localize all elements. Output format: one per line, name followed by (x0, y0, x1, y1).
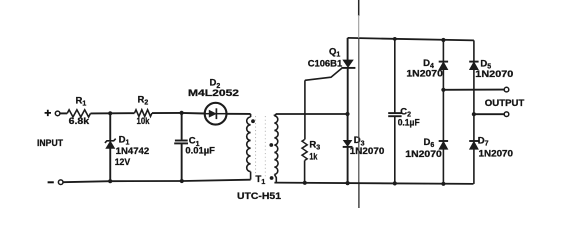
T1 primary phasing dot (251, 119, 255, 123)
svg-text:0.1µF: 0.1µF (398, 118, 421, 128)
diode D6 bar (439, 140, 448, 142)
T1 secondary winding (273, 115, 275, 116)
svg-text:1N2070: 1N2070 (406, 69, 443, 80)
zener D1 wire lower (109, 148, 111, 181)
SCR Q1 cathode wire (347, 68, 349, 114)
svg-text:1N4742: 1N4742 (116, 146, 150, 157)
junction dot D4 top (441, 38, 445, 42)
junction dot D6 bottom (441, 182, 445, 186)
SCR Q1 cathode bar (341, 67, 355, 69)
junction dot C2 top (393, 37, 397, 41)
diode D7 wire lower (473, 149, 475, 184)
svg-text:UTC-H51: UTC-H51 (237, 191, 282, 202)
diode D4 wire upper (442, 40, 444, 62)
top rail right (348, 38, 474, 41)
diode D4 wire lower (442, 70, 444, 184)
SCR Q1 triangle (343, 60, 353, 67)
zener diode D1 wire upper (109, 113, 111, 140)
svg-text:1k: 1k (309, 152, 317, 162)
capacitor C1 wire lower (181, 143, 183, 181)
output terminal upper (504, 87, 509, 92)
svg-text:M4L2052: M4L2052 (188, 88, 239, 99)
bottom rail left (63, 180, 251, 183)
input + terminal (55, 111, 60, 116)
svg-text:12V: 12V (115, 157, 131, 168)
wire secondary top to cathode node (274, 114, 347, 116)
input - terminal (58, 180, 63, 185)
junction dot output upper (441, 88, 445, 92)
output terminal lower (504, 112, 509, 117)
wire R1 to node A (91, 112, 111, 114)
junction dot C1 bottom (180, 179, 184, 183)
R3 wire lower (304, 161, 306, 183)
zener D1 triangle (106, 141, 115, 148)
wire R2 to node B (152, 112, 182, 114)
svg-text:1N2070: 1N2070 (350, 146, 385, 157)
svg-text:0.01µF: 0.01µF (185, 146, 215, 157)
capacitor C2 plates (388, 112, 401, 114)
node A junction dot (108, 111, 112, 115)
diode D5 wire upper (473, 40, 475, 61)
capacitor C2 wire lower (394, 116, 396, 183)
output wire lower (474, 113, 504, 115)
diode D6 triangle (439, 141, 448, 149)
wire node B to D2 (182, 112, 205, 115)
bottom rail right (274, 183, 473, 184)
gate wire down to R3 (304, 80, 306, 139)
diode D5 triangle (470, 62, 479, 70)
zener D1 bar (105, 139, 116, 143)
T1 secondary phasing dot upper (269, 143, 273, 147)
diode D3 bar (343, 146, 353, 148)
capacitor C2 wire upper (394, 39, 396, 113)
diode D4 bar (439, 61, 448, 63)
junction dot output lower (472, 112, 476, 116)
junction dot D1 bottom (108, 179, 112, 183)
capacitor C1 plates (175, 140, 188, 142)
junction dot D3 bottom (346, 181, 350, 185)
resistor R3 (302, 140, 307, 161)
input plus sign (45, 110, 51, 116)
diode D5 wire middle (473, 70, 475, 141)
crease line (358, 0, 360, 16)
wire + terminal to R1 (60, 112, 67, 114)
diode D2 symbol (205, 113, 209, 115)
T1 core dashed lines (255, 116, 257, 179)
svg-text:INPUT: INPUT (37, 138, 64, 148)
resistor R1 (67, 110, 90, 117)
diode D4 triangle (439, 62, 448, 70)
svg-text:C106B1: C106B1 (308, 59, 343, 70)
diode D5 bar (469, 61, 478, 63)
junction dot R3 bottom (303, 181, 307, 185)
svg-text:1N2070: 1N2070 (475, 69, 513, 80)
SCR Q1 anode wire (347, 38, 349, 60)
svg-text:6.8k: 6.8k (69, 116, 90, 127)
wire D2 to T1 primary (226, 113, 250, 115)
svg-text:1N2070: 1N2070 (479, 148, 514, 159)
diode D7 bar (469, 140, 478, 142)
svg-text:OUTPUT: OUTPUT (485, 98, 525, 109)
diode D3 triangle (344, 140, 352, 146)
output wire upper (443, 89, 504, 91)
diode D7 triangle (470, 141, 479, 149)
svg-text:10k: 10k (137, 116, 151, 127)
junction dot cathode node (345, 112, 349, 116)
diode D3 wire upper (347, 114, 349, 140)
capacitor C1 wire upper (181, 113, 183, 140)
resistor R2 (135, 110, 153, 117)
diode D2 circle (205, 103, 227, 125)
input minus sign (48, 181, 54, 183)
T1 primary winding (250, 114, 252, 117)
junction dot C2 bottom (393, 181, 397, 185)
node B junction dot (180, 111, 184, 115)
SCR Q1 gate lead (305, 68, 342, 80)
T1 secondary phasing dot lower (270, 176, 274, 180)
wire node A to R2 (110, 112, 134, 114)
diode D3 wire lower (347, 147, 349, 183)
svg-text:1N2070: 1N2070 (405, 149, 442, 160)
